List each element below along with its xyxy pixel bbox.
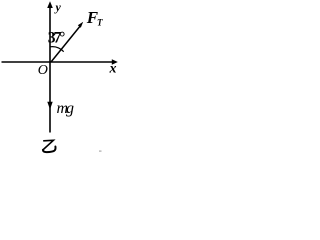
F_T arrowhead	[78, 22, 83, 28]
force vector F_T	[51, 27, 80, 63]
y-axis (continues below origin past mg arrow)	[49, 6, 51, 133]
scan speckle	[99, 151, 102, 152]
weight vector mg arrowhead (on negative y-axis)	[47, 102, 52, 110]
svg-text:37°: 37°	[48, 30, 66, 47]
background	[0, 0, 120, 157]
svg-text:O: O	[38, 63, 48, 78]
svg-text:x: x	[109, 62, 117, 77]
x-axis	[2, 61, 114, 63]
svg-text:T: T	[97, 18, 103, 28]
svg-text:y: y	[54, 0, 62, 14]
x-axis arrowhead	[112, 59, 118, 65]
caption character 乙 (drawn as path, CJK font unavailable)	[43, 140, 54, 150]
y-axis arrowhead	[47, 1, 53, 8]
angle arc 37 degrees	[50, 47, 64, 52]
svg-text:mg: mg	[57, 100, 75, 117]
